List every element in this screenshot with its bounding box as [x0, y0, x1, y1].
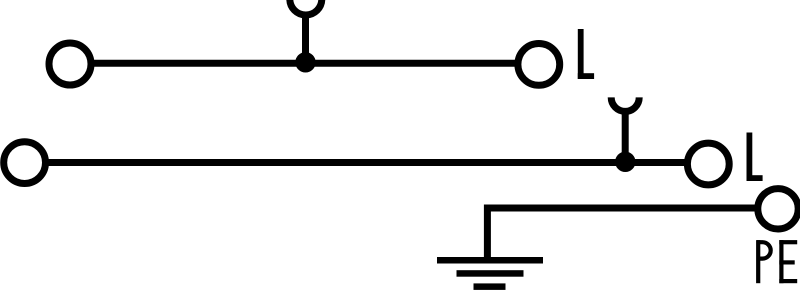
label PE letter P — [756, 240, 771, 283]
wire PE level — [487, 208, 778, 258]
label L top level — [578, 29, 594, 79]
socket arc top level (cut off at top edge) — [290, 0, 322, 15]
label L middle level — [747, 133, 763, 182]
junction dot middle level — [615, 152, 635, 172]
terminal circle top-right — [518, 44, 560, 86]
wire top level L — [70, 60, 539, 67]
wire tap stem top level — [302, 16, 309, 63]
terminal circle middle-right — [687, 143, 729, 185]
label PE letter E — [779, 240, 797, 283]
terminal circle top-left — [49, 43, 91, 85]
terminal circle middle-left — [4, 142, 46, 184]
wire middle level L — [25, 159, 709, 166]
ground symbol bar 3 — [474, 283, 506, 290]
terminal circle PE — [758, 189, 798, 229]
socket arc middle level — [611, 97, 639, 111]
wire tap stem middle level — [622, 112, 629, 162]
ground symbol bar 2 — [457, 270, 524, 277]
ground symbol bar 1 — [437, 257, 543, 264]
junction dot top level — [295, 52, 315, 72]
